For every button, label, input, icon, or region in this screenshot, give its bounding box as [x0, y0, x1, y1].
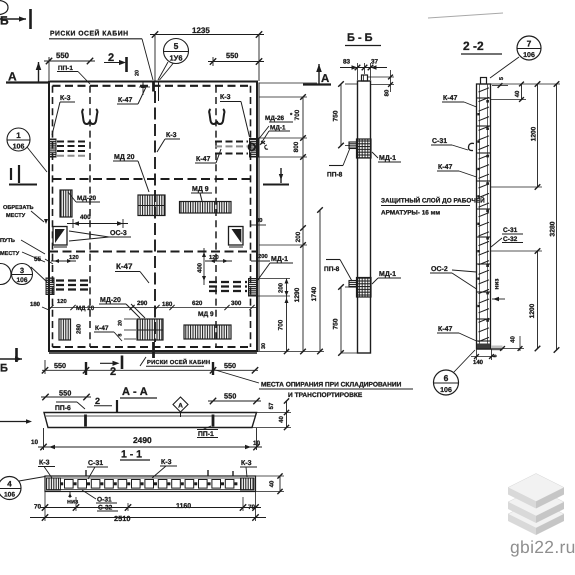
svg-text:К-47: К-47 [116, 262, 133, 271]
svg-text:180: 180 [30, 301, 41, 308]
svg-text:30: 30 [256, 217, 262, 224]
svg-text:ПУТЬ: ПУТЬ [0, 238, 15, 244]
MD-26 tiny marks [261, 141, 268, 149]
B-B top tab [362, 75, 368, 81]
circle mark 4/106 [0, 477, 21, 500]
svg-text:620: 620 [192, 300, 203, 307]
svg-text:ПП-1: ПП-1 [198, 431, 214, 438]
svg-text:низ: низ [67, 499, 79, 506]
svg-text:40: 40 [278, 416, 285, 423]
svg-text:8: 8 [117, 333, 123, 336]
dims 57 40 AA right [257, 412, 291, 414]
lifting hook left [82, 109, 97, 124]
cut circle top-left corner [0, 1, 8, 15]
svg-text:МЕСТУ: МЕСТУ [0, 251, 20, 257]
svg-text:1200: 1200 [529, 303, 536, 318]
bar MD-9 lower hatched [184, 325, 231, 339]
svg-text:57: 57 [268, 402, 275, 409]
dim row 70 1160 70 [40, 507, 261, 509]
svg-text:1160: 1160 [176, 503, 191, 510]
svg-text:ПП-6: ПП-6 [55, 405, 71, 412]
svg-text:И ТРАНСПОРТИРОВКЕ: И ТРАНСПОРТИРОВКЕ [288, 392, 363, 399]
plan dashed vertical line x=216 [215, 86, 217, 347]
2-2 top tab [481, 78, 487, 85]
circle mark 5/106 [164, 39, 189, 64]
dim 40 11 right [256, 475, 284, 477]
svg-text:С-31: С-31 [503, 227, 518, 234]
MD-1 block BB bottom [357, 278, 372, 298]
svg-text:30: 30 [261, 343, 267, 349]
svg-text:400: 400 [197, 262, 204, 273]
dots between stirrup boxes [60, 482, 63, 485]
svg-text:2490: 2490 [133, 435, 152, 445]
diamond mark A [173, 397, 188, 412]
svg-text:120: 120 [69, 254, 79, 261]
svg-text:10: 10 [31, 439, 39, 446]
svg-text:55: 55 [34, 256, 42, 263]
svg-text:1740: 1740 [311, 286, 318, 301]
arrow to A-A left end [0, 421, 28, 423]
svg-text:ПП-8: ПП-8 [327, 172, 343, 179]
svg-text:Б: Б [0, 363, 8, 375]
axis risk mark top [152, 83, 155, 92]
svg-text:1У6: 1У6 [169, 54, 182, 63]
svg-text:gbi22.ru: gbi22.ru [510, 537, 575, 557]
edge batten K-3 top-left hatched [50, 139, 57, 157]
block MD-20 lower-centre hatched [137, 319, 163, 340]
svg-text:ПП-8: ПП-8 [324, 266, 340, 273]
svg-text:ЗАЩИТНЫЙ СЛОЙ ДО РАБОЧЕЙ: ЗАЩИТНЫЙ СЛОЙ ДО РАБОЧЕЙ [381, 197, 485, 205]
svg-text:МД-20: МД-20 [77, 195, 97, 202]
label PP-8 BB top [329, 165, 343, 167]
circle mark 7/106 [517, 36, 541, 60]
svg-text:290: 290 [137, 300, 148, 307]
svg-text:83: 83 [343, 59, 351, 66]
svg-text:К-47: К-47 [118, 97, 132, 104]
plan dashed vertical line x=90 [89, 86, 91, 347]
svg-text:7: 7 [527, 39, 532, 49]
edge anchor left-mid hatched [46, 278, 54, 295]
section mark 1 right [263, 184, 289, 186]
svg-text:40: 40 [510, 336, 517, 343]
svg-text:70: 70 [248, 504, 256, 511]
svg-text:40: 40 [514, 90, 521, 97]
svg-text:106: 106 [13, 144, 25, 151]
svg-text:550: 550 [59, 389, 71, 398]
svg-text:А - А: А - А [122, 386, 148, 398]
block MD-20 upper-centre hatched [138, 195, 165, 216]
OS-3 square left [53, 227, 67, 246]
dash rows right of left-mid anchor [56, 279, 89, 281]
svg-text:40: 40 [269, 480, 276, 487]
svg-text:А: А [321, 73, 329, 85]
section mark 1 left [9, 184, 37, 186]
svg-text:МД-26: МД-26 [265, 115, 285, 122]
dim 750 BB top [340, 84, 342, 146]
svg-text:70: 70 [34, 504, 42, 511]
svg-text:2: 2 [95, 396, 100, 406]
vertical dim 1740 x=320 [319, 210, 321, 352]
svg-text:1 - 1: 1 - 1 [121, 449, 142, 461]
edge batten K-3 top-right hatched [250, 139, 259, 158]
svg-text:МД 9: МД 9 [198, 311, 214, 318]
svg-text:ПП-1: ПП-1 [58, 65, 73, 72]
svg-text:750: 750 [332, 110, 339, 121]
svg-text:120: 120 [57, 298, 67, 305]
svg-text:800: 800 [293, 141, 300, 152]
block MD-20 lower-left hatched [59, 319, 71, 340]
plan dashed horizontal y=179 [53, 178, 251, 180]
svg-text:К-3: К-3 [39, 460, 50, 467]
svg-text:К-47: К-47 [196, 156, 210, 163]
svg-text:РИСКИ ОСЕЙ КАБИН: РИСКИ ОСЕЙ КАБИН [147, 358, 210, 366]
A-A slab body [44, 413, 257, 428]
svg-text:106: 106 [16, 277, 27, 284]
vertical dims 200 700 x=286 [286, 279, 288, 352]
svg-text:2: 2 [110, 366, 116, 378]
svg-text:10: 10 [253, 440, 261, 447]
svg-text:МД-20: МД-20 [100, 297, 121, 304]
B-B column body [358, 81, 371, 353]
2-2 internal segment lines and ties [479, 88, 490, 92]
vertical dim chain x=303 [302, 97, 304, 352]
svg-text:ОС-3: ОС-3 [110, 230, 127, 237]
svg-text:С-32: С-32 [98, 505, 113, 512]
section mark A right [303, 83, 331, 85]
svg-text:400: 400 [80, 214, 91, 221]
svg-text:5: 5 [174, 41, 179, 51]
dim 80 BB [368, 76, 395, 78]
svg-text:106: 106 [4, 492, 15, 499]
svg-text:К-47: К-47 [443, 95, 457, 102]
svg-text:106: 106 [523, 52, 535, 59]
PP embed marks in slab [84, 415, 87, 427]
svg-text:140: 140 [473, 359, 484, 366]
svg-text:Б - Б: Б - Б [347, 32, 373, 44]
svg-text:3280: 3280 [549, 221, 556, 236]
svg-text:МД-1: МД-1 [379, 155, 396, 162]
faint scan line top right [428, 13, 503, 18]
bar ticks above 1-1 [85, 470, 87, 476]
circle mark 6/106 [434, 370, 459, 395]
svg-text:МЕСТА ОПИРАНИЯ ПРИ СКЛАДИРОВАН: МЕСТА ОПИРАНИЯ ПРИ СКЛАДИРОВАНИИ [261, 382, 402, 389]
1-1 end hatches [47, 478, 61, 490]
2-2 stirrup dots [486, 100, 489, 103]
svg-text:МД-1: МД-1 [270, 125, 286, 132]
svg-text:К-47: К-47 [95, 325, 109, 332]
svg-text:РИСКИ ОСЕЙ КАБИН: РИСКИ ОСЕЙ КАБИН [50, 29, 129, 38]
svg-text:550: 550 [54, 361, 66, 370]
S-31 loop 22 [468, 143, 474, 150]
svg-text:20: 20 [117, 320, 123, 326]
svg-text:750: 750 [332, 318, 339, 329]
circle mark 2/106 (clipped) [0, 264, 11, 285]
svg-text:2 -2: 2 -2 [463, 39, 484, 53]
svg-text:550: 550 [224, 392, 236, 401]
svg-text:37: 37 [371, 59, 379, 66]
bar MD-9 upper hatched [180, 202, 232, 214]
dash rows left of right-mid anchor [209, 281, 247, 283]
OS-3 square right [229, 227, 244, 246]
svg-text:МД-1: МД-1 [379, 271, 396, 278]
anchor MD-26 ring [249, 144, 256, 151]
axis risk mark bottom [152, 342, 155, 358]
svg-text:3: 3 [20, 266, 24, 275]
lifting hook right [209, 109, 224, 124]
svg-text:МЕСТУ: МЕСТУ [6, 213, 26, 219]
svg-text:МД-1: МД-1 [271, 256, 288, 263]
svg-text:К-3: К-3 [60, 95, 71, 102]
svg-text:200: 200 [295, 231, 302, 242]
svg-text:К-3: К-3 [166, 132, 177, 139]
svg-text:низ: низ [494, 279, 501, 290]
section mark B bottom-left [0, 358, 22, 360]
circle mark 3/106 [12, 264, 33, 285]
svg-text:550: 550 [224, 361, 236, 370]
1-1 slab body [45, 476, 256, 492]
dim 140 bottom 2-2 [476, 349, 478, 360]
dim 750 BB bottom [340, 287, 342, 353]
logo slab stack [508, 500, 564, 528]
svg-text:О-31: О-31 [97, 497, 112, 504]
svg-text:5: 5 [499, 77, 505, 80]
svg-text:1290: 1290 [294, 287, 301, 302]
2-2 left edge dots [477, 113, 479, 115]
block MD-20 upper-left hatched [60, 190, 72, 217]
2-2 column bottom dark end [477, 344, 490, 349]
dim 550 bottom row [42, 369, 258, 371]
circle mark 1/106 [7, 128, 30, 151]
svg-text:550: 550 [56, 51, 70, 60]
svg-text:1: 1 [16, 131, 21, 140]
panel plan outline [49, 82, 257, 352]
svg-text:200: 200 [278, 282, 285, 293]
svg-text:300: 300 [231, 300, 242, 307]
svg-text:А: А [178, 403, 183, 410]
label PP-8 BB bottom [326, 259, 340, 261]
svg-text:К-47: К-47 [438, 164, 452, 171]
dim 3280 [556, 84, 558, 350]
svg-text:700: 700 [278, 319, 285, 330]
svg-text:20: 20 [134, 70, 140, 76]
svg-text:АРМАТУРЫ- 16 мм: АРМАТУРЫ- 16 мм [381, 210, 440, 217]
svg-text:С-32: С-32 [503, 236, 518, 243]
svg-text:4: 4 [7, 480, 12, 489]
text riski osey kabin bottom [140, 357, 146, 366]
svg-text:МД 20: МД 20 [114, 154, 135, 161]
svg-text:200: 200 [258, 253, 268, 260]
svg-text:К-3: К-3 [220, 94, 231, 101]
plan dashed horizontal y=251 [49, 250, 257, 252]
plan inner dashed contour [53, 85, 251, 87]
svg-text:1200: 1200 [530, 126, 537, 141]
dash rows right of left batten [57, 141, 88, 143]
svg-text:ОС-2: ОС-2 [431, 266, 448, 273]
svg-text:700: 700 [294, 109, 301, 120]
svg-text:МД 9: МД 9 [192, 186, 209, 193]
svg-text:2510: 2510 [114, 514, 130, 523]
2-2 bottom pad [491, 346, 503, 351]
plan centre axis line [154, 35, 156, 82]
stirrup boxes in 1-1 [65, 480, 74, 489]
MD-1 block BB top [357, 139, 372, 158]
dash rows left of right batten [215, 141, 248, 143]
dim 1200 top 2-2 [537, 84, 539, 187]
svg-text:6: 6 [444, 373, 449, 383]
svg-text:С-31: С-31 [432, 138, 447, 145]
edge anchor MD-1 right-mid hatched [249, 279, 257, 297]
svg-text:550: 550 [226, 51, 238, 60]
svg-text:180: 180 [162, 301, 173, 308]
svg-text:80: 80 [384, 89, 391, 96]
svg-text:К-3: К-3 [241, 460, 252, 467]
svg-text:5: 5 [492, 354, 498, 357]
2-2 column body [477, 84, 491, 349]
svg-text:К-3: К-3 [161, 459, 172, 466]
svg-text:280: 280 [76, 323, 83, 334]
svg-text:К-47: К-47 [438, 326, 452, 333]
svg-text:1235: 1235 [192, 26, 210, 35]
svg-text:106: 106 [440, 387, 452, 394]
svg-text:Б: Б [0, 14, 9, 28]
dim 1200 bottom 2-2 [537, 251, 539, 349]
svg-text:МД 20: МД 20 [76, 305, 95, 312]
svg-text:С-31: С-31 [88, 460, 103, 467]
svg-text:ОБРЕЗАТЬ: ОБРЕЗАТЬ [3, 205, 34, 211]
